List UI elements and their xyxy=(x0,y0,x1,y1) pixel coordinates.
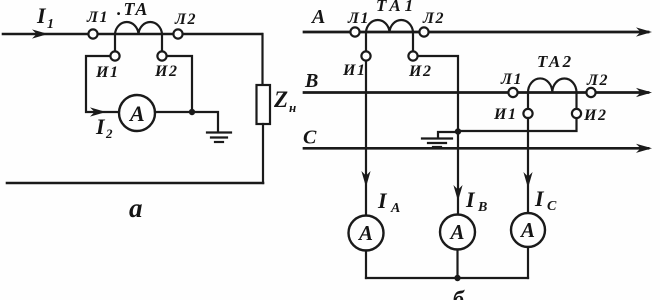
svg-text:Л2: Л2 xyxy=(422,10,445,27)
terminal Л1 (TA2) xyxy=(508,88,517,97)
arrow: current IC down xyxy=(523,172,532,188)
svg-text:I: I xyxy=(377,188,388,213)
svg-text:А: А xyxy=(449,220,465,244)
wire: И1 TA2 down to ammeter IC xyxy=(527,118,529,213)
ammeter A (left circuit) xyxy=(119,95,155,131)
terminal Л1 (TA1) xyxy=(350,27,359,36)
ammeter IB xyxy=(440,215,475,250)
svg-text:С: С xyxy=(547,199,557,214)
svg-text:Z: Z xyxy=(273,87,288,112)
wire: И2 TA1 right and down (common return) xyxy=(418,56,458,215)
svg-text:а: а xyxy=(129,193,143,223)
ammeter IC xyxy=(511,213,545,247)
svg-text:I: I xyxy=(95,114,106,139)
wire: TA secondary leg left xyxy=(114,34,116,51)
wire: ground connector xyxy=(438,132,458,137)
junction: ground and TA2 И2 tie point xyxy=(455,128,461,134)
wire: TA2 secondary leg left xyxy=(527,93,529,110)
svg-text:В: В xyxy=(477,200,487,215)
wire: from И1 down-left to ammeter xyxy=(86,56,119,112)
svg-text:А: А xyxy=(519,218,535,242)
svg-text:А: А xyxy=(357,221,373,245)
wire: phase C conductor xyxy=(304,147,648,150)
svg-text:И1: И1 xyxy=(95,64,119,81)
terminal Л2 (left TA primary) xyxy=(173,29,182,38)
svg-text:I: I xyxy=(534,186,545,211)
wire: ammeter to ground branch xyxy=(155,112,218,131)
wire: bottom return conductor xyxy=(7,182,263,185)
wire: ammeter IB to bottom bus xyxy=(456,250,458,279)
wire: TA secondary leg right xyxy=(161,34,163,51)
terminal И2 (TA2) xyxy=(572,109,581,118)
junction: bottom bus middle xyxy=(454,275,460,281)
arrow: secondary current I2 toward ammeter xyxy=(90,107,106,116)
svg-text:I: I xyxy=(36,3,47,28)
wire: bottom bus xyxy=(366,277,528,279)
current transformer TA1 winding arcs xyxy=(366,20,413,32)
terminal Л2 (TA2) xyxy=(586,88,595,97)
svg-text:Л2: Л2 xyxy=(586,72,609,89)
terminal Л1 (left TA primary) xyxy=(88,29,97,38)
wire: ammeter IC to bottom bus xyxy=(527,247,529,278)
svg-text:б: б xyxy=(453,286,465,300)
svg-text:I: I xyxy=(465,187,476,212)
ground (left circuit) xyxy=(207,131,231,133)
terminal Л2 (TA1) xyxy=(419,27,428,36)
arrow: current IA down xyxy=(361,171,370,187)
svg-text:А: А xyxy=(128,101,145,126)
wire: И1 TA1 down to ammeter IA xyxy=(365,61,367,216)
svg-text:И1: И1 xyxy=(493,106,517,123)
wire: ammeter IA to bottom bus xyxy=(365,251,367,279)
wire: left circuit top primary conductor xyxy=(3,33,262,36)
svg-text:А: А xyxy=(390,201,400,216)
terminal И2 (TA1) xyxy=(408,51,417,60)
svg-text:Л1: Л1 xyxy=(347,10,370,27)
wire: phase A conductor xyxy=(304,31,648,34)
current transformer TA primary winding arcs xyxy=(115,22,162,34)
svg-text:ТА1: ТА1 xyxy=(376,0,417,15)
wire: TA1 secondary leg right xyxy=(412,32,414,51)
arrow: phase C direction xyxy=(636,144,652,153)
svg-text:Л1: Л1 xyxy=(500,71,523,88)
svg-text:1: 1 xyxy=(47,17,54,32)
arrow: primary current direction I1 xyxy=(32,29,48,38)
wire: TA2 secondary leg right xyxy=(575,93,577,110)
wire: phase B conductor xyxy=(304,91,648,94)
wire: link from junction to И2 of TA2 xyxy=(458,118,577,131)
svg-text:.ТА: .ТА xyxy=(117,0,149,19)
svg-text:И1: И1 xyxy=(342,62,366,79)
wire: TA1 secondary leg left xyxy=(365,32,367,51)
junction: И2 branch joins ammeter wire xyxy=(189,109,195,115)
arrow: phase B direction xyxy=(636,88,652,97)
wire: right side down to load xyxy=(261,34,263,85)
svg-text:Л2: Л2 xyxy=(174,11,197,28)
svg-text:И2: И2 xyxy=(154,63,178,80)
svg-text:И2: И2 xyxy=(583,107,607,124)
terminal И1 (TA2) xyxy=(523,109,532,118)
wire: from И2 down to junction xyxy=(167,56,192,110)
svg-text:2: 2 xyxy=(105,126,113,141)
terminal И1 (TA1) xyxy=(361,51,370,60)
svg-text:С: С xyxy=(303,127,317,149)
wire: load to bottom return conductor xyxy=(262,124,264,183)
ammeter IA xyxy=(349,216,384,251)
svg-text:А: А xyxy=(310,6,325,28)
ground (right circuit) xyxy=(422,137,452,139)
svg-text:Л1: Л1 xyxy=(86,9,109,26)
svg-text:В: В xyxy=(304,70,318,92)
terminal И2 (left TA secondary) xyxy=(157,51,166,60)
terminal И1 (left TA secondary) xyxy=(110,51,119,60)
load Zн xyxy=(257,85,271,124)
svg-text:ТА2: ТА2 xyxy=(537,52,574,71)
svg-text:н: н xyxy=(289,100,296,115)
arrow: phase A direction xyxy=(636,27,652,36)
current transformer TA2 winding arcs xyxy=(528,78,577,92)
arrow: current IB down xyxy=(453,185,462,201)
svg-text:И2: И2 xyxy=(408,63,432,80)
